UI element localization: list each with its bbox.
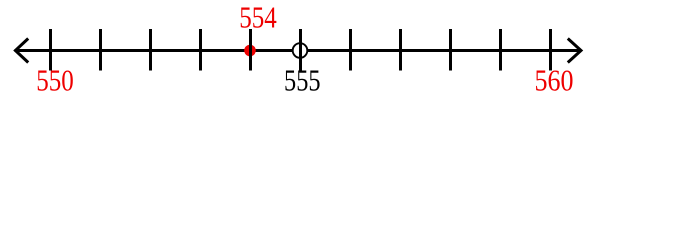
tick 552 [149,29,152,71]
tick 551 [99,29,102,71]
svg-text:554: 554 [239,0,277,34]
red point at 554 [244,45,256,57]
right arrowhead [568,39,581,63]
number line axis [15,49,582,52]
svg-text:555: 555 [284,64,321,98]
tick 559 [499,29,502,71]
tick 556 [349,29,352,71]
tick 557 [399,29,402,71]
svg-text:550: 550 [36,64,74,98]
tick 553 [199,29,202,71]
tick 555 [299,29,302,71]
svg-text:560: 560 [535,64,574,98]
tick 554 [249,29,252,71]
left arrowhead [15,39,28,63]
tick 550 [49,29,52,71]
tick 558 [449,29,452,71]
open circle at 555 [293,43,308,58]
tick 560 [549,29,552,71]
